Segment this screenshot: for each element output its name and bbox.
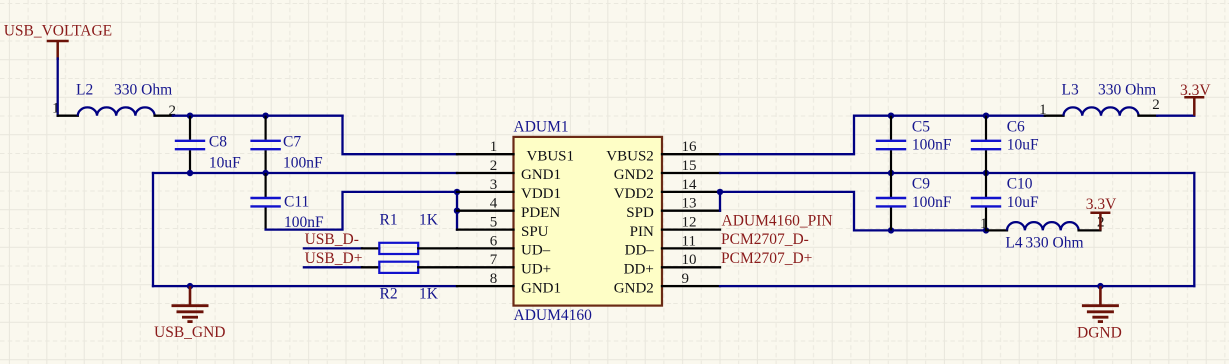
- pin 11 of ADUM1: [662, 247, 720, 249]
- pin 4 of ADUM1: [457, 210, 514, 212]
- pin 10 of ADUM1: [662, 266, 720, 268]
- wire from USB_VOLTAGE down to L2: [57, 59, 59, 116]
- svg-text:USB_VOLTAGE: USB_VOLTAGE: [4, 23, 112, 40]
- svg-text:VBUS1: VBUS1: [527, 148, 575, 164]
- junction DGND: [1097, 283, 1103, 289]
- junction C7 bottom / C11 top: [262, 170, 268, 176]
- pin 1 of R1: [362, 247, 379, 249]
- svg-text:C8: C8: [209, 134, 227, 151]
- svg-text:USB_D+: USB_D+: [305, 250, 363, 267]
- svg-text:3.3V: 3.3V: [1180, 82, 1211, 99]
- svg-text:L4: L4: [1005, 235, 1022, 252]
- svg-text:5: 5: [490, 215, 498, 231]
- junction C5 top: [888, 113, 894, 119]
- svg-text:GND2: GND2: [614, 280, 654, 296]
- svg-text:4: 4: [490, 196, 498, 212]
- pin 3 of ADUM1: [457, 191, 514, 193]
- junction C8 bottom: [187, 170, 193, 176]
- svg-text:7: 7: [490, 252, 498, 268]
- pin 1 of L2: [58, 115, 78, 117]
- svg-text:1K: 1K: [419, 212, 439, 229]
- svg-text:C9: C9: [912, 176, 930, 193]
- ground USB_GND symbol: [172, 286, 209, 322]
- ground DGND symbol: [1082, 286, 1119, 322]
- svg-text:C10: C10: [1007, 176, 1033, 193]
- pin 2 of R2 to UD+ pin: [418, 266, 457, 268]
- power port USB_VOLTAGE bar: [47, 41, 69, 60]
- svg-text:DGND: DGND: [1077, 325, 1122, 342]
- svg-text:16: 16: [682, 139, 698, 155]
- junction C10 bottom / L4 pin 1: [983, 227, 989, 233]
- wire USB_D+ to R2: [304, 266, 362, 268]
- svg-text:C5: C5: [912, 119, 930, 136]
- capacitor C8: [175, 116, 205, 173]
- svg-text:C7: C7: [283, 134, 301, 151]
- pin 1 of L3: [1045, 115, 1064, 117]
- wire GND2 row (pin 9): [720, 285, 1194, 287]
- svg-text:SPD: SPD: [626, 205, 654, 221]
- svg-text:13: 13: [682, 196, 697, 212]
- svg-text:100nF: 100nF: [912, 194, 952, 211]
- pin 2 of L2: [155, 115, 173, 117]
- wire GND1 row (pin 2): [153, 172, 457, 174]
- wire USB_D- to R1: [304, 247, 362, 249]
- wire riser pin 13 to pin 14: [719, 192, 721, 211]
- inductor L3: [1064, 107, 1139, 115]
- svg-text:10uF: 10uF: [209, 154, 241, 171]
- capacitor C6: [971, 116, 1001, 173]
- svg-text:L2: L2: [76, 82, 93, 99]
- svg-text:100nF: 100nF: [283, 154, 323, 171]
- svg-text:330 Ohm: 330 Ohm: [114, 82, 172, 99]
- pin 16 of ADUM1: [662, 153, 720, 155]
- junction C5 bottom / C9 top: [888, 170, 894, 176]
- junction C9 bottom: [888, 227, 894, 233]
- svg-text:ADUM4160_PIN: ADUM4160_PIN: [722, 212, 833, 229]
- svg-text:330 Ohm: 330 Ohm: [1025, 235, 1083, 252]
- pin 9 of ADUM1: [662, 285, 720, 287]
- junction at PDEN pin: [454, 208, 460, 214]
- svg-text:DD–: DD–: [625, 243, 655, 259]
- junction VDD1/PDEN riser top: [454, 189, 460, 195]
- svg-text:SPU: SPU: [521, 224, 549, 240]
- svg-text:GND1: GND1: [521, 167, 561, 183]
- svg-text:USB_GND: USB_GND: [154, 324, 225, 341]
- capacitor C9: [876, 173, 906, 230]
- capacitor C7: [250, 116, 280, 173]
- svg-text:11: 11: [682, 233, 696, 249]
- svg-text:330 Ohm: 330 Ohm: [1098, 82, 1156, 99]
- svg-text:100nF: 100nF: [284, 214, 324, 231]
- svg-text:ADUM1: ADUM1: [514, 119, 569, 136]
- svg-text:GND1: GND1: [521, 280, 561, 296]
- pin 1 of L4: [986, 229, 1007, 231]
- pin 12 of ADUM1: [662, 228, 720, 230]
- svg-text:PDEN: PDEN: [521, 205, 560, 221]
- inductor L4: [1007, 222, 1079, 230]
- junction at C8 top: [187, 113, 193, 119]
- inductor L2: [78, 107, 155, 115]
- wire VDD2 down to 3.3V row: [720, 192, 986, 231]
- svg-text:3: 3: [490, 177, 498, 193]
- svg-text:8: 8: [490, 271, 498, 287]
- svg-text:1: 1: [490, 139, 498, 155]
- pin 8 of ADUM1: [457, 285, 514, 287]
- svg-text:10uF: 10uF: [1007, 194, 1039, 211]
- junction at C7 top: [262, 113, 268, 119]
- pin 7 of ADUM1: [457, 266, 514, 268]
- wire VBUS2 up to top-right row: [720, 116, 1045, 155]
- svg-text:VDD2: VDD2: [614, 186, 654, 202]
- wire L2 to corner (VBUS net): [173, 115, 343, 117]
- svg-text:3.3V: 3.3V: [1086, 196, 1117, 213]
- power port 3.3V (at L4): [1090, 213, 1110, 231]
- svg-text:PCM2707_D+: PCM2707_D+: [721, 250, 812, 267]
- pin 5 of ADUM1: [457, 228, 514, 230]
- right trunk wire (DGND net): [1193, 173, 1195, 286]
- svg-text:ADUM4160: ADUM4160: [514, 307, 593, 324]
- junction USB_GND: [187, 283, 193, 289]
- wire GND1 row (pin 8): [153, 285, 457, 287]
- capacitor C11: [250, 173, 280, 230]
- svg-text:C11: C11: [284, 193, 309, 210]
- pin 2 of L4: [1079, 229, 1101, 231]
- svg-text:14: 14: [682, 177, 698, 193]
- svg-text:C6: C6: [1007, 119, 1025, 136]
- svg-text:2: 2: [490, 158, 498, 174]
- svg-text:UD–: UD–: [521, 243, 551, 259]
- svg-text:DD+: DD+: [624, 262, 654, 278]
- wire C11 bottom to VDD1 pin: [266, 192, 457, 230]
- resistor R1: [379, 243, 418, 254]
- pin 2 of R1 to UD- pin: [418, 247, 457, 249]
- svg-text:PCM2707_D-: PCM2707_D-: [721, 231, 809, 248]
- pin 6 of ADUM1: [457, 247, 514, 249]
- left trunk wire (USB_GND net): [152, 173, 154, 286]
- svg-text:GND2: GND2: [614, 167, 654, 183]
- pin 1 of ADUM1: [457, 153, 514, 155]
- svg-text:2: 2: [1152, 97, 1160, 113]
- junction C6 top: [983, 113, 989, 119]
- svg-text:VBUS2: VBUS2: [606, 148, 654, 164]
- svg-text:100nF: 100nF: [912, 137, 952, 154]
- wire corner down to VBUS1 pin: [343, 116, 458, 155]
- resistor R2: [379, 262, 418, 273]
- svg-text:USB_D-: USB_D-: [305, 231, 359, 248]
- pin 15 of ADUM1: [662, 172, 720, 174]
- wire riser pins 3-4-5: [456, 192, 458, 230]
- wire GND2 row (pin 15): [720, 172, 1194, 174]
- svg-text:6: 6: [490, 233, 498, 249]
- svg-text:9: 9: [682, 271, 690, 287]
- svg-text:10uF: 10uF: [1007, 137, 1039, 154]
- svg-text:L3: L3: [1062, 82, 1079, 99]
- power port 3.3V (top right): [1184, 97, 1204, 115]
- svg-text:1: 1: [52, 101, 60, 117]
- capacitor C10: [971, 173, 1001, 230]
- svg-text:R2: R2: [380, 286, 398, 303]
- svg-text:PIN: PIN: [630, 224, 654, 240]
- pin 14 of ADUM1: [662, 191, 720, 193]
- svg-text:VDD1: VDD1: [521, 186, 561, 202]
- svg-text:1K: 1K: [419, 286, 439, 303]
- wire L3 to 3.3V: [1157, 115, 1194, 117]
- pin 1 of R2: [362, 266, 379, 268]
- junction C6 bottom / C10 top: [983, 170, 989, 176]
- svg-text:15: 15: [682, 158, 697, 174]
- svg-text:R1: R1: [380, 212, 398, 229]
- junction SPD riser top: [717, 189, 723, 195]
- svg-text:UD+: UD+: [521, 262, 551, 278]
- pin 2 of L3: [1139, 115, 1158, 117]
- pin 2 of ADUM1: [457, 172, 514, 174]
- svg-text:12: 12: [682, 215, 697, 231]
- op-amp U1: ADUM4160 body: [514, 137, 663, 306]
- svg-text:10: 10: [682, 252, 697, 268]
- pin 13 of ADUM1: [662, 210, 720, 212]
- capacitor C5: [876, 116, 906, 173]
